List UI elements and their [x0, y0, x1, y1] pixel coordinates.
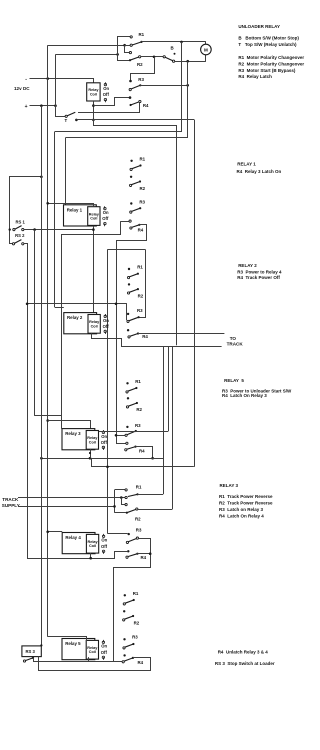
- svg-text:R3: R3: [132, 635, 138, 640]
- svg-text:R3: R3: [137, 308, 143, 313]
- svg-text:Off: Off: [103, 92, 110, 97]
- svg-text:B: B: [171, 46, 174, 51]
- svg-text:Coil: Coil: [91, 324, 98, 328]
- svg-text:R2: R2: [134, 621, 140, 626]
- svg-text:R3 Power to Relay 4: R3 Power to Relay 4: [237, 269, 282, 274]
- svg-text:RS 3 Stop Switch at Loader: RS 3 Stop Switch at Loader: [215, 661, 275, 666]
- svg-text:Coil: Coil: [90, 216, 97, 220]
- svg-text:R4 Latch On Relay 3: R4 Latch On Relay 3: [222, 393, 267, 398]
- svg-text:R3: R3: [138, 77, 144, 82]
- svg-text:TRACK: TRACK: [227, 341, 244, 346]
- svg-text:RELAY 2: RELAY 2: [238, 263, 257, 268]
- svg-text:TRACK: TRACK: [2, 497, 19, 502]
- svg-text:T: T: [65, 118, 68, 123]
- svg-text:B Bottom S/W (Motor Stop): B Bottom S/W (Motor Stop): [238, 36, 299, 41]
- svg-text:Off: Off: [101, 544, 108, 549]
- svg-text:Coil: Coil: [89, 440, 96, 444]
- svg-text:R4: R4: [138, 660, 144, 665]
- svg-text:R4 Relay Latch: R4 Relay Latch: [238, 74, 272, 79]
- svg-text:R4 Track Power Off: R4 Track Power Off: [237, 275, 280, 280]
- svg-text:R2: R2: [138, 294, 144, 299]
- svg-text:Relay 4: Relay 4: [65, 535, 81, 540]
- svg-text:R1: R1: [140, 157, 146, 162]
- svg-text:R1: R1: [137, 265, 143, 270]
- svg-text:RS 2: RS 2: [15, 233, 25, 238]
- svg-text:M: M: [204, 47, 208, 52]
- svg-text:R3: R3: [135, 423, 141, 428]
- svg-text:R2: R2: [137, 62, 143, 67]
- svg-text:R4 Relay 3 Latch On: R4 Relay 3 Latch On: [237, 169, 282, 174]
- svg-text:R1: R1: [139, 32, 145, 37]
- svg-text:RELAY 1: RELAY 1: [237, 161, 256, 166]
- svg-text:Coil: Coil: [90, 92, 97, 96]
- svg-text:R4 Latch On Relay 4: R4 Latch On Relay 4: [219, 513, 264, 518]
- svg-text:R3 Latch on Relay 3: R3 Latch on Relay 3: [219, 507, 264, 512]
- svg-text:On: On: [103, 210, 109, 215]
- svg-text:Off: Off: [101, 440, 108, 445]
- svg-text:RS 1: RS 1: [16, 219, 26, 224]
- svg-text:12v DC: 12v DC: [14, 86, 30, 91]
- svg-text:RELAY 5: RELAY 5: [224, 378, 244, 383]
- svg-text:On: On: [101, 434, 107, 439]
- svg-text:R4: R4: [138, 228, 144, 233]
- svg-text:R4: R4: [139, 449, 145, 454]
- svg-text:Off: Off: [101, 650, 108, 655]
- svg-text:Off: Off: [102, 216, 109, 221]
- svg-text:R2: R2: [135, 516, 141, 521]
- svg-text:R1 Track Power Reverse: R1 Track Power Reverse: [219, 494, 273, 499]
- svg-text:Relay 3: Relay 3: [65, 431, 81, 436]
- svg-text:R3 Motor Start (B Bypass): R3 Motor Start (B Bypass): [238, 68, 296, 73]
- svg-text:UNLOADER RELAY: UNLOADER RELAY: [238, 24, 280, 29]
- svg-text:R4: R4: [142, 334, 148, 339]
- svg-text:R3: R3: [139, 199, 145, 204]
- svg-text:R1 Motor Polarity Changeover: R1 Motor Polarity Changeover: [238, 55, 304, 60]
- svg-text:On: On: [101, 644, 107, 649]
- svg-text:RELAY 3: RELAY 3: [220, 483, 239, 488]
- svg-text:On: On: [101, 538, 107, 543]
- svg-text:TO: TO: [230, 336, 237, 341]
- svg-text:R3: R3: [136, 528, 142, 533]
- svg-text:Coil: Coil: [89, 544, 96, 548]
- svg-text:R4: R4: [143, 103, 149, 108]
- svg-text:+: +: [25, 104, 28, 110]
- svg-text:R2 Track Power Reverse: R2 Track Power Reverse: [219, 501, 273, 506]
- svg-text:Coil: Coil: [89, 650, 96, 654]
- svg-text:RS 3: RS 3: [26, 649, 36, 654]
- svg-text:SUPPLY: SUPPLY: [2, 503, 20, 508]
- svg-text:Relay 5: Relay 5: [65, 641, 81, 646]
- svg-text:Relay 1: Relay 1: [67, 207, 83, 212]
- svg-text:R4 Unlatch Relay 3 & 4: R4 Unlatch Relay 3 & 4: [218, 649, 269, 654]
- svg-text:R1: R1: [135, 379, 141, 384]
- svg-text:T Top S/W (Relay Unlatch): T Top S/W (Relay Unlatch): [238, 42, 297, 47]
- svg-text:R2: R2: [140, 186, 146, 191]
- svg-text:R2: R2: [136, 407, 142, 412]
- svg-text:R1: R1: [136, 484, 142, 489]
- svg-text:R4: R4: [141, 555, 147, 560]
- svg-text:On: On: [103, 86, 109, 91]
- svg-text:Off: Off: [103, 324, 110, 329]
- svg-text:Relay 2: Relay 2: [67, 315, 83, 320]
- svg-text:R1: R1: [133, 591, 139, 596]
- svg-text:R2 Motor Polarity Changeover: R2 Motor Polarity Changeover: [238, 61, 304, 66]
- svg-text:On: On: [103, 318, 109, 323]
